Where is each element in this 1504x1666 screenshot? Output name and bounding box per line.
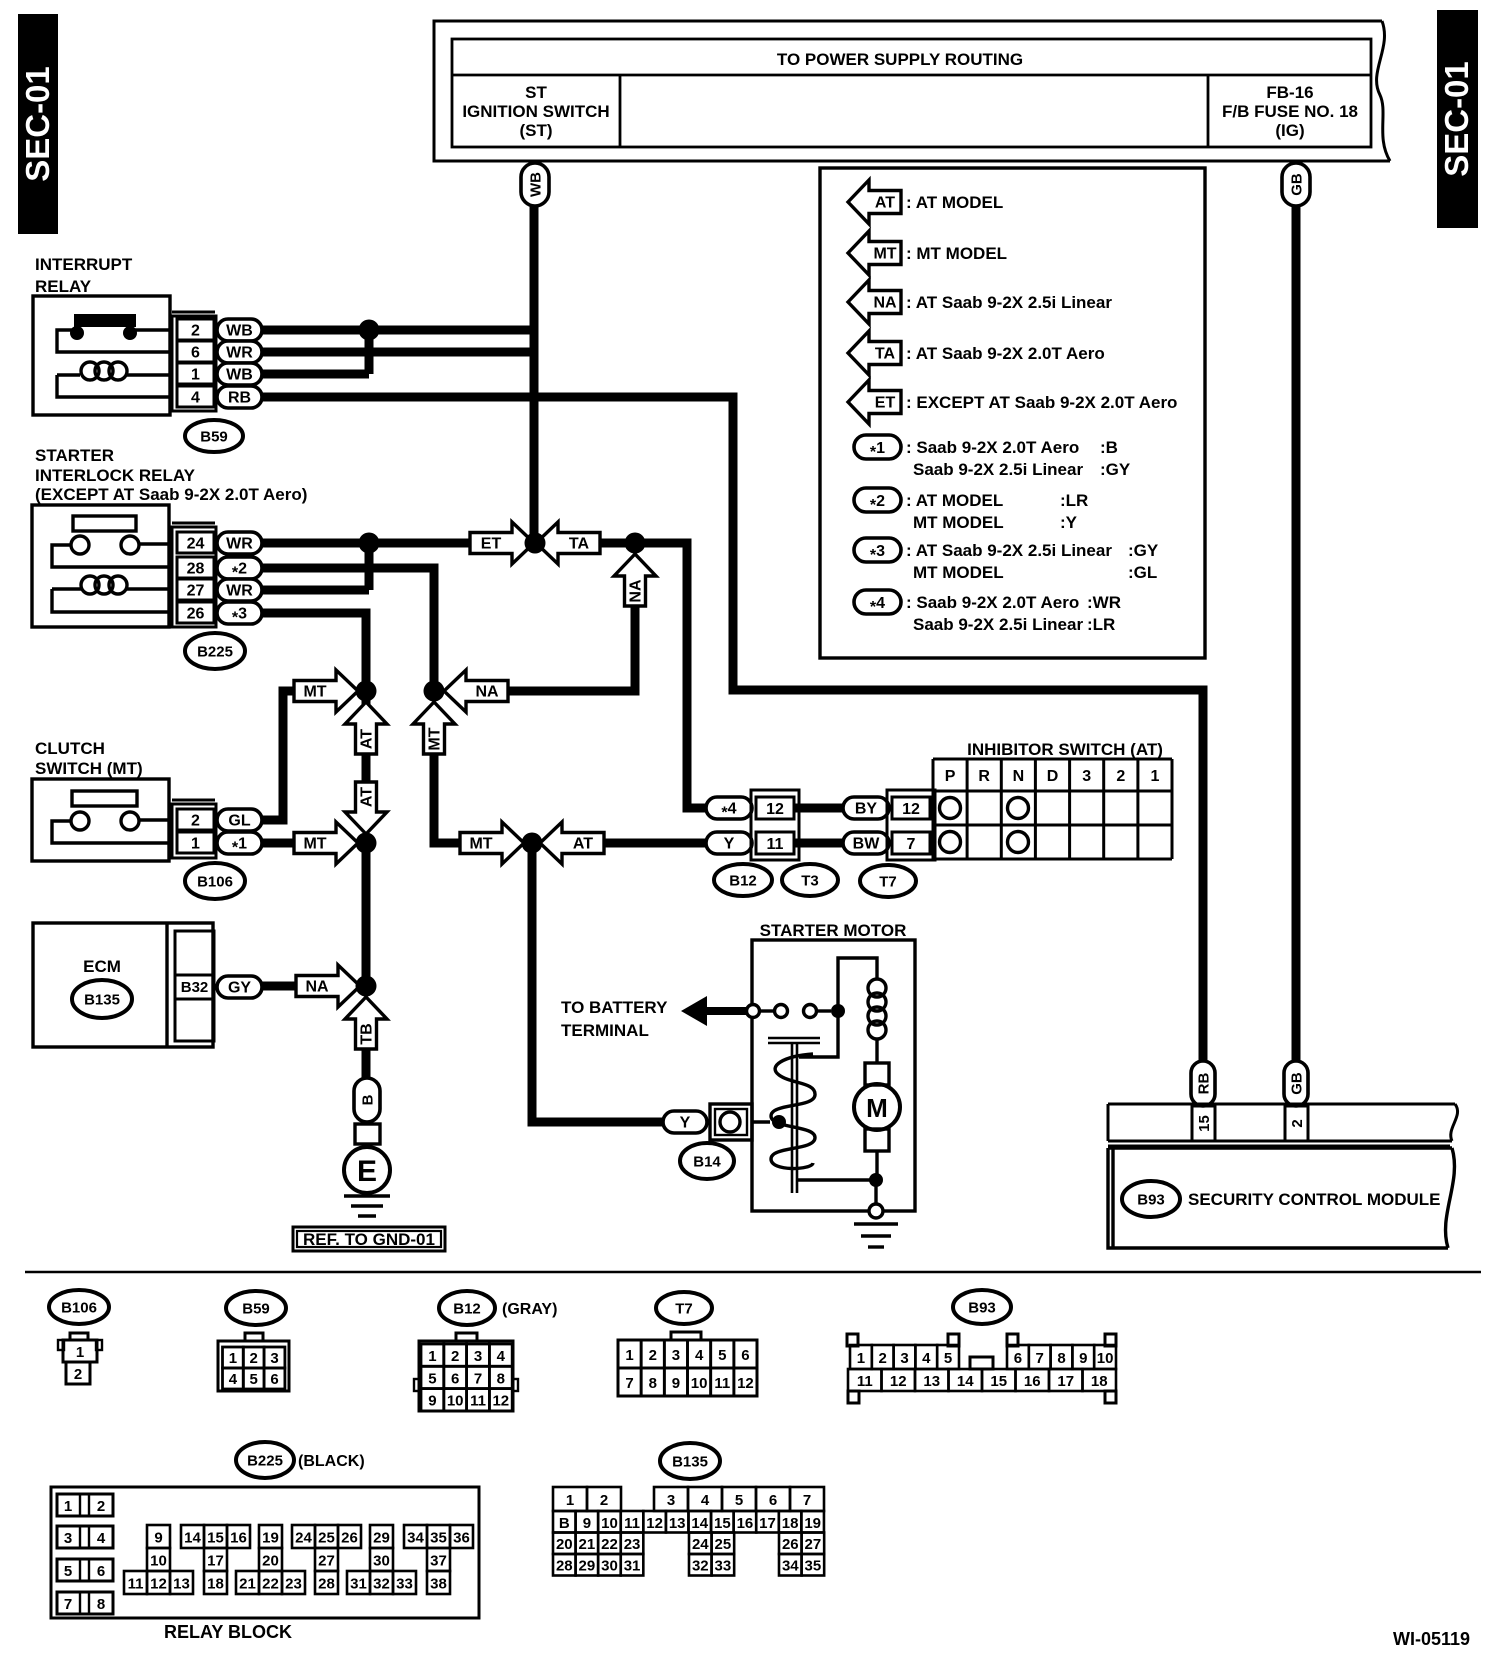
svg-text:14: 14 bbox=[957, 1373, 974, 1390]
arrow NA right into ground chain bbox=[296, 965, 360, 1007]
wire tag *1 pin1 bbox=[217, 832, 262, 854]
svg-text:F/B FUSE NO. 18: F/B FUSE NO. 18 bbox=[1222, 102, 1358, 121]
svg-text:(EXCEPT AT Saab 9-2X 2.0T Aero: (EXCEPT AT Saab 9-2X 2.0T Aero) bbox=[35, 485, 307, 504]
pin 6 bbox=[177, 341, 214, 362]
wire tag GY bbox=[217, 976, 262, 998]
starter solenoid node bbox=[831, 1004, 845, 1018]
svg-text:MT: MT bbox=[303, 836, 326, 853]
svg-text:6: 6 bbox=[1014, 1350, 1022, 1367]
svg-text:29: 29 bbox=[373, 1530, 390, 1547]
starter interlock relay contact plate bbox=[73, 516, 136, 531]
connector oval B93 module bbox=[1122, 1181, 1180, 1217]
wire TB to ground tag B bbox=[362, 1049, 371, 1080]
svg-text:3: 3 bbox=[900, 1350, 908, 1367]
svg-text:WR: WR bbox=[226, 536, 253, 553]
svg-text:18: 18 bbox=[782, 1515, 799, 1532]
interrupt relay coil bbox=[57, 373, 80, 376]
legend note *2 bbox=[854, 488, 901, 512]
pin 4 bbox=[177, 386, 214, 407]
svg-text:B225: B225 bbox=[197, 644, 233, 661]
svg-text:17: 17 bbox=[759, 1515, 776, 1532]
svg-text:E: E bbox=[357, 1155, 377, 1188]
svg-text:T7: T7 bbox=[879, 874, 897, 891]
wire tag WR pin24 bbox=[217, 532, 262, 554]
svg-text:9: 9 bbox=[428, 1393, 436, 1410]
svg-text:GB: GB bbox=[1289, 1072, 1306, 1095]
svg-text::LR: :LR bbox=[1087, 615, 1115, 634]
junction on pin2 wire bbox=[359, 320, 380, 341]
starter Y terminal link bbox=[752, 1120, 770, 1123]
arrow ET bbox=[470, 522, 534, 564]
connector oval B12 bottom bbox=[439, 1291, 495, 1325]
svg-text:: Saab 9-2X 2.0T Aero: : Saab 9-2X 2.0T Aero bbox=[906, 593, 1079, 612]
junction NA into *2 wire bbox=[424, 681, 445, 702]
svg-text:RB: RB bbox=[1196, 1073, 1213, 1095]
wire between AT arrows bbox=[362, 754, 371, 782]
svg-text:14: 14 bbox=[184, 1530, 201, 1547]
svg-text:MT: MT bbox=[873, 246, 896, 263]
svg-text:SWITCH (MT): SWITCH (MT) bbox=[35, 759, 143, 778]
svg-text:B: B bbox=[559, 1515, 570, 1532]
svg-text:8: 8 bbox=[1057, 1350, 1065, 1367]
svg-text:GL: GL bbox=[228, 813, 250, 830]
svg-text::GY: :GY bbox=[1128, 541, 1159, 560]
svg-text:2: 2 bbox=[879, 1350, 887, 1367]
svg-text:1: 1 bbox=[64, 1498, 72, 1515]
svg-text:23: 23 bbox=[624, 1536, 641, 1553]
connector oval B59 bottom bbox=[226, 1291, 286, 1325]
wire tag WR pin27 bbox=[217, 579, 262, 601]
svg-text:12: 12 bbox=[766, 801, 784, 818]
wire *2 chain down to MT/AT junction bbox=[434, 754, 460, 843]
svg-text:2: 2 bbox=[1289, 1119, 1306, 1127]
svg-text:7: 7 bbox=[474, 1370, 482, 1387]
solenoid plunger link bbox=[799, 1011, 838, 1057]
wire tag GB at module bbox=[1284, 1061, 1308, 1106]
pin 28 bbox=[177, 557, 214, 578]
svg-text:CLUTCH: CLUTCH bbox=[35, 739, 105, 758]
svg-text:30: 30 bbox=[601, 1558, 618, 1575]
svg-text:B12: B12 bbox=[729, 873, 757, 890]
svg-text:12: 12 bbox=[902, 801, 920, 818]
svg-text:MT: MT bbox=[427, 727, 444, 750]
svg-text:B93: B93 bbox=[968, 1300, 996, 1317]
svg-text:2: 2 bbox=[1116, 768, 1125, 785]
inhibitor switch table bbox=[932, 759, 935, 859]
svg-text:16: 16 bbox=[737, 1515, 754, 1532]
svg-text:NA: NA bbox=[475, 684, 499, 701]
svg-text:22: 22 bbox=[601, 1536, 618, 1553]
starter motor M bbox=[865, 1063, 889, 1085]
svg-text:15: 15 bbox=[207, 1530, 224, 1547]
svg-text:REF. TO GND-01: REF. TO GND-01 bbox=[303, 1230, 435, 1249]
svg-text:: Saab 9-2X 2.0T Aero: : Saab 9-2X 2.0T Aero bbox=[906, 438, 1079, 457]
svg-text:7: 7 bbox=[803, 1492, 811, 1509]
arrow MT right into MT/AT junction bbox=[460, 822, 524, 864]
security module connector strip bbox=[1108, 1103, 1455, 1106]
connector B14 terminal bbox=[710, 1104, 752, 1140]
svg-text:WI-05119: WI-05119 bbox=[1393, 1629, 1470, 1649]
svg-text:6: 6 bbox=[741, 1347, 749, 1364]
svg-text:5: 5 bbox=[64, 1563, 72, 1580]
connector oval B135 bottom bbox=[660, 1443, 720, 1479]
arrow MT right into *3 junction bbox=[294, 670, 358, 712]
svg-text:24: 24 bbox=[295, 1530, 312, 1547]
wire pin26 *3 down to clutch MT junction bbox=[262, 613, 366, 692]
svg-text:17: 17 bbox=[1057, 1373, 1074, 1390]
svg-text:R: R bbox=[978, 768, 990, 785]
arrow NA up bbox=[614, 554, 656, 606]
svg-text:22: 22 bbox=[262, 1576, 279, 1593]
svg-text:20: 20 bbox=[556, 1536, 573, 1553]
svg-text:NA: NA bbox=[628, 579, 645, 603]
wire pin11 to BW bbox=[794, 839, 843, 848]
svg-text:Saab 9-2X 2.5i Linear: Saab 9-2X 2.5i Linear bbox=[913, 615, 1083, 634]
svg-text:21: 21 bbox=[579, 1536, 596, 1553]
svg-text:17: 17 bbox=[207, 1553, 224, 1570]
svg-text:P: P bbox=[945, 768, 956, 785]
relay block cells bbox=[147, 1525, 170, 1548]
svg-text:TERMINAL: TERMINAL bbox=[561, 1021, 649, 1040]
separator line bbox=[25, 1271, 1481, 1274]
svg-text:18: 18 bbox=[207, 1576, 224, 1593]
svg-text:(BLACK): (BLACK) bbox=[298, 1453, 365, 1470]
pin 7 T7 bbox=[892, 832, 930, 854]
svg-text:19: 19 bbox=[804, 1515, 821, 1532]
svg-text:11: 11 bbox=[624, 1515, 640, 1532]
legend arrow AT bbox=[848, 180, 901, 224]
wire WB from ignition switch down to ET/TA junction bbox=[530, 205, 539, 543]
wire GB from fuse FB-16 down to security module bbox=[1292, 205, 1301, 1062]
svg-text:26: 26 bbox=[187, 606, 205, 623]
svg-text:34: 34 bbox=[407, 1530, 424, 1547]
legend arrow TA bbox=[848, 331, 901, 375]
pin 11 T3 bbox=[756, 832, 794, 854]
svg-text:6: 6 bbox=[451, 1370, 459, 1387]
connector oval B59 bbox=[185, 420, 243, 452]
svg-text:13: 13 bbox=[669, 1515, 686, 1532]
svg-text:B93: B93 bbox=[1137, 1192, 1165, 1209]
junction on pin24 wire bbox=[359, 533, 380, 554]
connector B59 pinout bbox=[245, 1333, 263, 1341]
svg-text:7: 7 bbox=[625, 1375, 633, 1392]
wire spring to motor node bbox=[797, 1178, 870, 1181]
wire pin28 *2 down to NA/MT junction bbox=[262, 568, 434, 692]
svg-text:32: 32 bbox=[692, 1558, 709, 1575]
section tab SEC-01 left bbox=[18, 14, 58, 234]
battery feed arrowhead bbox=[681, 996, 707, 1026]
svg-text:11: 11 bbox=[767, 836, 784, 853]
svg-text:6: 6 bbox=[270, 1371, 278, 1388]
svg-text:ST: ST bbox=[525, 83, 547, 102]
svg-text:11: 11 bbox=[857, 1373, 873, 1390]
connector B12 pinout bbox=[456, 1333, 477, 1341]
wire tag WR pin6 bbox=[217, 341, 262, 363]
interrupt relay box bbox=[33, 296, 170, 415]
svg-text:INTERRUPT: INTERRUPT bbox=[35, 255, 133, 274]
svg-text:TB: TB bbox=[359, 1023, 376, 1044]
pin 12 T7 bbox=[892, 797, 930, 819]
reference box REF. TO GND-01 bbox=[293, 1227, 445, 1251]
wire tag WB pin1 bbox=[217, 363, 262, 385]
svg-text:TA: TA bbox=[875, 346, 896, 363]
starter contact terminal circle bbox=[747, 1005, 760, 1018]
svg-text:29: 29 bbox=[579, 1558, 596, 1575]
svg-text:AT: AT bbox=[573, 836, 593, 853]
wire NA branch down and left bbox=[508, 606, 635, 691]
svg-text:16: 16 bbox=[1024, 1373, 1041, 1390]
pin 2 clutch bbox=[177, 809, 214, 830]
svg-text:IGNITION SWITCH: IGNITION SWITCH bbox=[462, 102, 609, 121]
svg-text:27: 27 bbox=[805, 1536, 822, 1553]
svg-text:B12: B12 bbox=[453, 1301, 481, 1318]
wire tag WB pin2 bbox=[217, 319, 262, 341]
svg-text:4: 4 bbox=[695, 1347, 704, 1364]
svg-text:25: 25 bbox=[715, 1536, 732, 1553]
svg-text:10: 10 bbox=[691, 1375, 708, 1392]
svg-text:T7: T7 bbox=[675, 1301, 693, 1318]
svg-text::WR: :WR bbox=[1087, 593, 1121, 612]
svg-text:34: 34 bbox=[782, 1558, 799, 1575]
svg-text:31: 31 bbox=[624, 1558, 641, 1575]
svg-text::GY: :GY bbox=[1100, 460, 1131, 479]
svg-text:WB: WB bbox=[528, 172, 545, 197]
svg-text:RB: RB bbox=[228, 390, 251, 407]
svg-text:4: 4 bbox=[701, 1492, 710, 1509]
svg-text:Y: Y bbox=[680, 1115, 691, 1132]
svg-text:WR: WR bbox=[226, 583, 253, 600]
wire pin2 WB to WB drop bbox=[262, 326, 534, 335]
battery feed wire bbox=[705, 1007, 749, 1015]
svg-text::B: :B bbox=[1100, 438, 1118, 457]
svg-text:D: D bbox=[1047, 768, 1059, 785]
svg-text:36: 36 bbox=[453, 1530, 470, 1547]
svg-text:12: 12 bbox=[890, 1373, 907, 1390]
svg-text:21: 21 bbox=[239, 1576, 256, 1593]
fuse FB-16 cell bbox=[1207, 75, 1210, 147]
svg-text:3: 3 bbox=[672, 1347, 680, 1364]
svg-text:3: 3 bbox=[667, 1492, 675, 1509]
ground symbol bbox=[344, 1194, 390, 1197]
pin 12 B12 bbox=[756, 797, 794, 819]
junction NA branch bbox=[625, 533, 646, 554]
svg-text:3: 3 bbox=[474, 1348, 482, 1365]
svg-text:11: 11 bbox=[714, 1375, 730, 1392]
jumper pin24 to pin27 bbox=[365, 543, 374, 590]
svg-text:2: 2 bbox=[250, 1350, 258, 1367]
relay block box bbox=[51, 1487, 479, 1618]
arrow MT right into *1 junction bbox=[294, 822, 358, 864]
svg-text:B59: B59 bbox=[200, 429, 228, 446]
connector oval B106 bbox=[185, 863, 245, 899]
ECM connector strip B32 bbox=[175, 931, 214, 1041]
svg-text:GY: GY bbox=[228, 980, 251, 997]
arrow AT up below *3 junction bbox=[345, 702, 387, 754]
starter contact points bbox=[775, 1005, 788, 1018]
svg-text:RELAY: RELAY bbox=[35, 277, 92, 296]
svg-text:MT: MT bbox=[303, 684, 326, 701]
svg-text:8: 8 bbox=[97, 1596, 105, 1613]
connector oval B225 bbox=[185, 633, 245, 669]
svg-text:B135: B135 bbox=[84, 992, 120, 1009]
svg-text:SECURITY CONTROL MODULE: SECURITY CONTROL MODULE bbox=[1188, 1190, 1441, 1209]
starter ground symbol bbox=[854, 1222, 898, 1225]
legend arrow MT bbox=[848, 231, 901, 275]
svg-text:INTERLOCK RELAY: INTERLOCK RELAY bbox=[35, 466, 196, 485]
svg-text:3: 3 bbox=[64, 1530, 72, 1547]
svg-text:GB: GB bbox=[1289, 173, 1306, 196]
svg-text:WB: WB bbox=[226, 367, 253, 384]
svg-text:31: 31 bbox=[350, 1576, 367, 1593]
svg-text:B225: B225 bbox=[247, 1453, 283, 1470]
svg-text:AT: AT bbox=[875, 195, 895, 212]
svg-text:10: 10 bbox=[150, 1553, 167, 1570]
svg-text:18: 18 bbox=[1091, 1373, 1108, 1390]
svg-text::LR: :LR bbox=[1060, 491, 1088, 510]
svg-text:BY: BY bbox=[855, 801, 878, 818]
svg-text::Y: :Y bbox=[1060, 513, 1078, 532]
junction ECM NA node bbox=[356, 976, 377, 997]
starter motor bottom node bbox=[869, 1173, 883, 1187]
svg-text:28: 28 bbox=[187, 561, 205, 578]
svg-text:SEC-01: SEC-01 bbox=[1438, 61, 1475, 177]
svg-text:11: 11 bbox=[470, 1393, 486, 1410]
arrow NA left bbox=[444, 670, 508, 712]
svg-text:13: 13 bbox=[173, 1576, 190, 1593]
legend note *4 bbox=[854, 590, 901, 614]
power supply routing box bbox=[434, 21, 1390, 161]
svg-text:(IG): (IG) bbox=[1275, 121, 1304, 140]
svg-text:4: 4 bbox=[191, 390, 200, 407]
svg-text:1: 1 bbox=[76, 1344, 84, 1361]
connector oval B93 bottom bbox=[953, 1290, 1011, 1324]
wire color tag WB bbox=[521, 163, 549, 206]
arrow TB up below NA junction bbox=[345, 997, 387, 1049]
connector frame B12/T3 bbox=[751, 790, 799, 860]
svg-text:10: 10 bbox=[1097, 1350, 1114, 1367]
svg-text:AT: AT bbox=[359, 787, 376, 807]
svg-text:5: 5 bbox=[735, 1492, 743, 1509]
svg-text::GL: :GL bbox=[1128, 563, 1157, 582]
clutch switch plate bbox=[72, 791, 137, 806]
legend arrow NA bbox=[848, 280, 901, 324]
starter drive lever bbox=[768, 1037, 820, 1040]
wire MT/AT junction down to starter motor Y terminal bbox=[532, 843, 663, 1122]
wire tag *2 pin28 bbox=[217, 557, 262, 579]
svg-text:5: 5 bbox=[944, 1350, 952, 1367]
starter interlock relay box bbox=[32, 505, 169, 627]
connector B93 pinout bbox=[847, 1334, 858, 1346]
svg-text:14: 14 bbox=[691, 1515, 708, 1532]
svg-text:B106: B106 bbox=[197, 874, 233, 891]
svg-text:2: 2 bbox=[97, 1498, 105, 1515]
svg-text:INHIBITOR SWITCH (AT): INHIBITOR SWITCH (AT) bbox=[967, 740, 1163, 759]
svg-text:T3: T3 bbox=[801, 873, 819, 890]
svg-text:: EXCEPT AT Saab 9-2X 2.0T Aer: : EXCEPT AT Saab 9-2X 2.0T Aero bbox=[906, 393, 1177, 412]
wire pin1 WB bbox=[262, 370, 369, 379]
svg-text:1: 1 bbox=[857, 1350, 865, 1367]
connector oval T3 bbox=[782, 864, 838, 896]
interrupt relay contact bar bbox=[74, 314, 136, 327]
svg-text:4: 4 bbox=[229, 1371, 238, 1388]
connector B59 pin frame bbox=[172, 311, 215, 314]
connector B225 pin frame bbox=[172, 522, 215, 525]
svg-text:4: 4 bbox=[97, 1530, 106, 1547]
svg-text:7: 7 bbox=[907, 836, 916, 853]
legend note *1 bbox=[854, 435, 901, 459]
svg-text:12: 12 bbox=[492, 1393, 509, 1410]
svg-text:3: 3 bbox=[270, 1350, 278, 1367]
svg-text:: AT Saab 9-2X 2.5i Linear: : AT Saab 9-2X 2.5i Linear bbox=[906, 293, 1112, 312]
svg-text:15: 15 bbox=[990, 1373, 1007, 1390]
svg-text:26: 26 bbox=[782, 1536, 799, 1553]
svg-text:38: 38 bbox=[430, 1576, 447, 1593]
ground point E bbox=[344, 1147, 390, 1193]
svg-text:WB: WB bbox=[226, 323, 253, 340]
svg-text:37: 37 bbox=[430, 1553, 447, 1570]
wire junction *1 down to ECM NA junction bbox=[362, 843, 371, 986]
pin 27 bbox=[177, 579, 214, 600]
ground wire tag B bbox=[354, 1078, 380, 1122]
module pin 2 bbox=[1285, 1106, 1308, 1141]
wire AT to Y pin11 bbox=[604, 839, 706, 848]
svg-text:MT MODEL: MT MODEL bbox=[913, 563, 1004, 582]
connector B106 pin frame bbox=[172, 799, 215, 802]
starter case terminal bbox=[869, 1204, 883, 1218]
wire pin6 WR to ET/TA junction drop bbox=[262, 348, 534, 357]
svg-text:B59: B59 bbox=[242, 1301, 270, 1318]
svg-text:12: 12 bbox=[737, 1375, 754, 1392]
svg-text:24: 24 bbox=[692, 1536, 709, 1553]
arrow AT left into MT/AT junction bbox=[540, 822, 604, 864]
svg-text:5: 5 bbox=[428, 1370, 436, 1387]
svg-text:1: 1 bbox=[1150, 768, 1159, 785]
connector frame T7 inhibitor bbox=[887, 790, 935, 860]
wire tag *4 pin12 bbox=[706, 797, 752, 819]
wire tag *3 pin26 bbox=[217, 602, 262, 624]
svg-text:2: 2 bbox=[600, 1492, 608, 1509]
wire clutch *1 to MT arrow bbox=[262, 839, 294, 848]
wire TA to *4 branch corner bbox=[600, 543, 706, 808]
svg-text:12: 12 bbox=[150, 1576, 167, 1593]
svg-text:25: 25 bbox=[318, 1530, 335, 1547]
connector oval T7 bottom bbox=[656, 1292, 712, 1324]
svg-text:32: 32 bbox=[373, 1576, 390, 1593]
svg-text:9: 9 bbox=[583, 1515, 591, 1532]
svg-text:(ST): (ST) bbox=[519, 121, 552, 140]
svg-text:4: 4 bbox=[497, 1348, 506, 1365]
svg-text:8: 8 bbox=[649, 1375, 657, 1392]
wire tag BW bbox=[843, 832, 889, 854]
svg-text:: AT MODEL: : AT MODEL bbox=[906, 491, 1003, 510]
svg-text:9: 9 bbox=[154, 1530, 162, 1547]
clutch switch box bbox=[32, 779, 169, 861]
svg-text:2: 2 bbox=[451, 1348, 459, 1365]
svg-text:FB-16: FB-16 bbox=[1266, 83, 1313, 102]
junction *3/GL bbox=[356, 681, 377, 702]
svg-text:RELAY BLOCK: RELAY BLOCK bbox=[164, 1622, 292, 1642]
starter interlock relay coil bbox=[52, 587, 82, 590]
svg-text:10: 10 bbox=[601, 1515, 618, 1532]
svg-text:ECM: ECM bbox=[83, 957, 121, 976]
wire GY to NA arrow bbox=[262, 982, 296, 991]
svg-text:19: 19 bbox=[262, 1530, 279, 1547]
ECM box bbox=[33, 923, 213, 1047]
wire clutch GL up to MT arrow bbox=[262, 691, 294, 820]
svg-text:ET: ET bbox=[875, 395, 896, 412]
svg-text:33: 33 bbox=[715, 1558, 732, 1575]
starter motor box bbox=[752, 940, 915, 1211]
